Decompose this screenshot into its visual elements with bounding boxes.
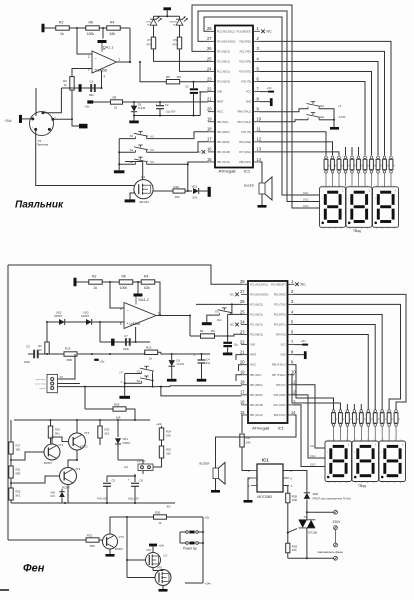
svg-text:PC3 (ADC3): PC3 (ADC3) bbox=[217, 50, 230, 53]
transistor Q1 IRF244 bbox=[134, 175, 153, 204]
svg-text:1k: 1k bbox=[370, 418, 372, 420]
svg-text:D1: D1 bbox=[138, 102, 142, 106]
svg-text:10µ: 10µ bbox=[206, 362, 211, 365]
wire segment pin4 bbox=[294, 314, 383, 409]
resistor R23 bbox=[98, 420, 110, 445]
svg-text:VD2: VD2 bbox=[56, 310, 62, 314]
svg-text:R7: R7 bbox=[147, 38, 151, 42]
svg-text:6R2: 6R2 bbox=[16, 472, 21, 476]
wire bbox=[10, 478, 12, 488]
switch S3 (fen) bbox=[215, 308, 232, 322]
wire segment line pin2 bbox=[260, 41, 392, 155]
svg-text:S4: S4 bbox=[130, 148, 134, 152]
wire segment line pin5 bbox=[260, 72, 372, 156]
ground bbox=[202, 322, 212, 325]
svg-text:5K1: 5K1 bbox=[55, 432, 60, 436]
wire triac gate bbox=[287, 503, 297, 544]
svg-text:VCC: VCC bbox=[246, 92, 251, 94]
svg-text:470: 470 bbox=[146, 43, 151, 47]
svg-text:PC1 (ADC1): PC1 (ADC1) bbox=[250, 324, 263, 327]
label TVod 2 bbox=[358, 484, 366, 488]
wire bbox=[153, 463, 162, 467]
svg-text:TL431: TL431 bbox=[177, 362, 185, 366]
svg-text:термопара: термопара bbox=[35, 379, 46, 381]
svg-text:+T: +T bbox=[119, 370, 123, 374]
svg-text:7: 7 bbox=[257, 86, 260, 91]
svg-text:R8: R8 bbox=[113, 96, 117, 100]
svg-text:-T/OK: -T/OK bbox=[338, 115, 346, 119]
resistor R9 bbox=[172, 37, 181, 49]
svg-text:1k: 1k bbox=[367, 165, 369, 167]
resistor R31 bbox=[86, 534, 99, 548]
ground bbox=[125, 199, 136, 202]
svg-text:R19: R19 bbox=[55, 428, 60, 432]
wire buttons common bbox=[319, 109, 335, 127]
svg-text:1M: 1M bbox=[211, 329, 216, 333]
wire to mains terminal bbox=[307, 511, 334, 513]
resistor R6 (fen) bbox=[119, 275, 133, 291]
svg-text:+T: +T bbox=[338, 104, 342, 108]
label +5v bbox=[94, 359, 105, 364]
svg-text:240: 240 bbox=[246, 441, 251, 445]
capacitor C1 bbox=[89, 80, 95, 97]
svg-text:7: 7 bbox=[291, 339, 294, 344]
wire gate bus bbox=[126, 517, 128, 578]
wire bbox=[124, 387, 126, 396]
svg-text:VT6: VT6 bbox=[146, 548, 151, 552]
svg-text:4: 4 bbox=[32, 127, 34, 129]
svg-text:R15: R15 bbox=[146, 345, 152, 349]
wire bbox=[185, 582, 203, 584]
svg-text:DIG2: DIG2 bbox=[310, 455, 316, 458]
svg-text:Паяльник: Паяльник bbox=[15, 200, 64, 211]
resistor R45 segment (fen) bbox=[366, 410, 372, 441]
svg-text:5: 5 bbox=[291, 319, 294, 324]
svg-text:VD4: VD4 bbox=[123, 437, 129, 441]
svg-text:1: 1 bbox=[375, 443, 377, 447]
svg-text:+: + bbox=[95, 68, 97, 72]
transistor VT4 BC547 bbox=[103, 534, 125, 551]
svg-text:C6: C6 bbox=[140, 478, 144, 482]
wire analog rail bbox=[61, 87, 101, 89]
svg-text:Паяльник: Паяльник bbox=[37, 144, 49, 147]
connector heater supply bbox=[123, 459, 153, 471]
svg-text:ATmega8: ATmega8 bbox=[252, 426, 270, 431]
svg-text:FR207: FR207 bbox=[81, 314, 90, 318]
svg-text:BC547: BC547 bbox=[44, 461, 52, 465]
svg-text:1k: 1k bbox=[60, 32, 64, 36]
wire bbox=[167, 516, 204, 518]
svg-text:8: 8 bbox=[257, 96, 260, 101]
wire bbox=[127, 559, 146, 561]
svg-text:6: 6 bbox=[120, 307, 122, 311]
wire segment line pin3 bbox=[260, 51, 385, 155]
svg-text:1k: 1k bbox=[391, 418, 393, 420]
wire bbox=[154, 15, 180, 18]
wire segment pin10 bbox=[292, 375, 340, 410]
svg-text:IC1: IC1 bbox=[244, 169, 251, 174]
svg-text:S2: S2 bbox=[137, 379, 141, 383]
svg-text:17: 17 bbox=[240, 390, 245, 395]
resistor R25 bbox=[159, 446, 171, 463]
wire digit3 loop pin26 bbox=[192, 5, 320, 208]
terminal heater 2 bbox=[334, 543, 338, 547]
svg-text:R1: R1 bbox=[200, 329, 204, 333]
wire bbox=[199, 190, 208, 192]
svg-text:4: 4 bbox=[291, 484, 293, 488]
resistor R4 (fen) bbox=[141, 275, 155, 291]
svg-text:GND: GND bbox=[246, 102, 251, 104]
svg-text:C7: C7 bbox=[124, 334, 128, 338]
wire segment pin2 bbox=[294, 294, 407, 409]
switch S1 bbox=[307, 102, 342, 109]
ground bbox=[197, 379, 207, 382]
diode VD3 FR207 bbox=[81, 310, 92, 325]
wire segment pin3 bbox=[294, 304, 401, 409]
title Фен bbox=[23, 563, 45, 575]
wire R3 bottom to ground bbox=[72, 90, 79, 126]
wire op-amp V- to analog rail bbox=[101, 70, 103, 89]
resistor R38 segment bbox=[376, 156, 382, 187]
label +24v bottom bbox=[205, 582, 212, 586]
svg-text:VD1: VD1 bbox=[192, 185, 198, 189]
resistor R32 segment bbox=[337, 156, 343, 187]
ground bbox=[244, 500, 253, 503]
resistor R43 segment (fen) bbox=[352, 410, 358, 441]
resistor R15 (fen) bbox=[142, 345, 158, 360]
label -6V bbox=[166, 505, 171, 509]
resistor R3 (fen) bbox=[38, 322, 49, 354]
wire buttons right bus bbox=[152, 374, 154, 388]
switch SA1 power up A bbox=[180, 531, 203, 534]
svg-text:DIG2: DIG2 bbox=[303, 198, 309, 201]
terminal bbox=[208, 187, 211, 197]
svg-text:LM358: LM358 bbox=[130, 322, 140, 326]
svg-text:24: 24 bbox=[207, 66, 212, 71]
resistor R33 segment bbox=[344, 156, 350, 187]
wire bbox=[180, 49, 209, 72]
svg-text:10R: 10R bbox=[292, 498, 297, 502]
svg-text:11: 11 bbox=[257, 127, 262, 132]
wire M2 bbox=[147, 142, 209, 152]
svg-text:2: 2 bbox=[291, 289, 294, 294]
svg-text:5: 5 bbox=[257, 66, 260, 71]
svg-text:VT2: VT2 bbox=[75, 467, 81, 471]
svg-text:62k: 62k bbox=[110, 32, 116, 36]
svg-text:10: 10 bbox=[257, 117, 262, 122]
wire VT5 source bbox=[162, 586, 164, 590]
svg-text:100: 100 bbox=[175, 195, 180, 199]
wire digit1 loop pin28 bbox=[204, 17, 320, 195]
wire bbox=[93, 101, 110, 103]
resistor R7 bbox=[146, 37, 155, 49]
svg-text:PC5 (ADC5/SCL): PC5 (ADC5/SCL) bbox=[250, 283, 268, 286]
svg-text:5K1: 5K1 bbox=[105, 432, 110, 436]
LED HL1 red bbox=[146, 16, 162, 26]
svg-text:16: 16 bbox=[240, 400, 245, 405]
svg-text:PB7 (XTAL2): PB7 (XTAL2) bbox=[237, 121, 251, 124]
wire VT5 gate link bbox=[148, 577, 156, 579]
svg-text:R27: R27 bbox=[246, 436, 252, 440]
wire heater element bbox=[335, 530, 337, 544]
svg-text:1k: 1k bbox=[347, 165, 349, 167]
svg-text:21: 21 bbox=[240, 349, 245, 354]
svg-text:5: 5 bbox=[120, 322, 122, 326]
resistor R41 segment (fen) bbox=[339, 410, 345, 441]
wire S3 left to ground bbox=[207, 315, 220, 322]
terminal mains B bbox=[334, 556, 338, 560]
label 220V bbox=[333, 520, 342, 524]
wire segment pin6 bbox=[294, 335, 369, 410]
svg-text:S3: S3 bbox=[130, 134, 134, 138]
wire pin20 stub bbox=[239, 365, 242, 371]
svg-text:68R: 68R bbox=[67, 358, 72, 362]
wire VT3 collector bbox=[76, 420, 78, 433]
display HG3 digit 3 bbox=[373, 185, 399, 229]
svg-text:27: 27 bbox=[240, 289, 245, 294]
svg-text:PC4 (ADC4/SDA): PC4 (ADC4/SDA) bbox=[250, 293, 269, 296]
svg-text:7: 7 bbox=[158, 311, 160, 315]
wire VT1 emitter bbox=[0, 0, 1, 1]
op-amp DA1.1 bbox=[88, 45, 120, 78]
wire bbox=[99, 322, 101, 342]
svg-text:1k: 1k bbox=[384, 418, 386, 420]
resistor R30 segment bbox=[324, 156, 330, 187]
power bar +24v fan bbox=[149, 544, 165, 553]
power bar +5 over op-amp bbox=[98, 40, 107, 52]
svg-text:PC2 (ADC2): PC2 (ADC2) bbox=[250, 313, 263, 316]
svg-text:RED: RED bbox=[146, 21, 151, 23]
wire +5v pin7 (fen) bbox=[295, 344, 306, 346]
svg-text:VD3: VD3 bbox=[83, 310, 89, 314]
svg-text:R24: R24 bbox=[166, 430, 171, 434]
svg-text:ATmega8: ATmega8 bbox=[218, 169, 236, 174]
svg-text:+: + bbox=[127, 322, 129, 326]
svg-text:PC6 (RESET): PC6 (RESET) bbox=[237, 31, 252, 33]
svg-text:R23: R23 bbox=[105, 428, 110, 432]
svg-text:PD6 (AIN0): PD6 (AIN0) bbox=[239, 141, 251, 144]
label thermocouple bbox=[35, 379, 46, 381]
svg-text:15: 15 bbox=[240, 410, 245, 415]
svg-text:GREEN: GREEN bbox=[169, 21, 177, 23]
wire VT2 emitter bbox=[67, 485, 69, 504]
connector P1 soldering iron DIN-5 bbox=[30, 111, 57, 147]
resistor R39 segment bbox=[383, 156, 389, 187]
svg-text:21: 21 bbox=[207, 96, 212, 101]
wire bbox=[77, 353, 145, 355]
resistor R46 segment (fen) bbox=[373, 410, 379, 441]
capacitor C6 filter bbox=[185, 82, 202, 116]
ground bbox=[114, 170, 125, 173]
IC U2 ATmega8 (Фен) bbox=[240, 279, 296, 430]
svg-text:1k: 1k bbox=[354, 165, 356, 167]
svg-text:BT138: BT138 bbox=[309, 531, 318, 535]
wire fan source link bbox=[0, 0, 1, 1]
svg-text:C6: C6 bbox=[185, 84, 189, 88]
switch S1 (fen) bbox=[119, 366, 154, 374]
wire bbox=[35, 88, 37, 116]
svg-text:330: 330 bbox=[292, 548, 297, 552]
wire +5 rail to IC pin21 bbox=[159, 101, 208, 103]
svg-text:PC5 (ADC5/SCL): PC5 (ADC5/SCL) bbox=[217, 30, 235, 33]
svg-text:R15: R15 bbox=[174, 185, 180, 189]
wire segment line pin13 bbox=[260, 152, 340, 156]
svg-text:Mini: Mini bbox=[217, 318, 222, 322]
resistor R24 bbox=[156, 422, 171, 446]
display HG6 digit 3 bbox=[379, 440, 406, 484]
wire VT1 base bbox=[11, 452, 44, 460]
svg-text:1: 1 bbox=[342, 188, 344, 192]
svg-text:8: 8 bbox=[291, 349, 294, 354]
svg-text:1k: 1k bbox=[39, 348, 43, 352]
svg-text:2: 2 bbox=[257, 36, 260, 41]
wire opto pin6 trunk bbox=[283, 471, 307, 493]
svg-text:C2: C2 bbox=[165, 103, 169, 107]
zener VD1 5V1 bbox=[192, 185, 199, 200]
svg-text:1k: 1k bbox=[64, 83, 68, 87]
svg-text:+5v: +5v bbox=[100, 359, 105, 363]
svg-text:1k: 1k bbox=[349, 418, 351, 420]
wire VT3 emitter bbox=[68, 450, 78, 468]
svg-text:470n 63V: 470n 63V bbox=[97, 497, 108, 500]
switch S2 (fen) bbox=[120, 376, 154, 384]
svg-text:PD1 (TXD): PD1 (TXD) bbox=[240, 51, 252, 53]
wire bbox=[10, 454, 12, 466]
wire Q1 gate bbox=[153, 190, 174, 192]
svg-text:1k: 1k bbox=[398, 418, 400, 420]
ground bbox=[330, 127, 339, 130]
wire bbox=[43, 88, 61, 113]
svg-text:PD6 (AIN0): PD6 (AIN0) bbox=[274, 394, 286, 397]
svg-text:AREF: AREF bbox=[217, 101, 224, 104]
svg-text:S2: S2 bbox=[321, 115, 325, 119]
wire bbox=[10, 500, 12, 503]
diode VD5 FR207 bbox=[304, 492, 319, 499]
svg-text:PB3 (MOSI): PB3 (MOSI) bbox=[250, 395, 263, 397]
wire stub segments bbox=[346, 147, 359, 156]
svg-text:1M: 1M bbox=[177, 75, 182, 79]
resistor R35 segment bbox=[357, 156, 363, 187]
ground bbox=[159, 589, 168, 592]
svg-text:−: − bbox=[127, 308, 129, 312]
svg-text:+: + bbox=[128, 478, 130, 482]
svg-text:20: 20 bbox=[240, 360, 245, 365]
label VD5 note bbox=[313, 498, 351, 501]
capacitor C3 bbox=[24, 345, 38, 364]
power +5v rail terminal bbox=[85, 100, 94, 108]
wire bbox=[100, 27, 108, 29]
svg-text:6: 6 bbox=[291, 329, 294, 334]
svg-text:VT5: VT5 bbox=[157, 565, 162, 569]
svg-text:R17: R17 bbox=[16, 444, 21, 448]
resistor R30 bbox=[154, 511, 167, 525]
resistor R1 1M bbox=[200, 329, 215, 338]
wire opto feed pin15 bbox=[241, 415, 244, 433]
svg-text:GND: GND bbox=[217, 92, 222, 94]
svg-text:100n: 100n bbox=[24, 360, 31, 364]
wire bbox=[215, 479, 217, 491]
svg-text:3: 3 bbox=[257, 46, 260, 51]
svg-text:C1: C1 bbox=[90, 80, 94, 84]
svg-text:25: 25 bbox=[240, 309, 245, 314]
svg-text:AREF: AREF bbox=[250, 354, 257, 357]
ground bbox=[119, 396, 130, 399]
wire bbox=[127, 577, 148, 579]
svg-text:10K: 10K bbox=[116, 416, 121, 420]
svg-text:R9: R9 bbox=[173, 38, 177, 42]
svg-text:-6V: -6V bbox=[166, 505, 171, 509]
svg-text:D1: D1 bbox=[177, 358, 181, 362]
wire buzzer (fen) pin14 bbox=[216, 415, 297, 468]
capacitor bar pin8 bbox=[260, 98, 273, 106]
svg-text:PB6 (XTAL1): PB6 (XTAL1) bbox=[237, 111, 251, 114]
svg-text:PD2 (INT0): PD2 (INT0) bbox=[239, 61, 251, 63]
wire bbox=[123, 101, 164, 103]
svg-text:PD5 (T1): PD5 (T1) bbox=[242, 132, 252, 134]
terminal +5v (fen) bbox=[301, 339, 308, 346]
capacitor C8 (pin22 net) bbox=[223, 336, 238, 353]
node DIG3 fen bbox=[310, 463, 316, 466]
svg-text:NC: NC bbox=[301, 283, 307, 287]
svg-text:+24v: +24v bbox=[156, 422, 163, 426]
svg-text:VT1: VT1 bbox=[58, 443, 64, 447]
svg-text:68n: 68n bbox=[89, 93, 94, 97]
svg-text:PD0 (RXD): PD0 (RXD) bbox=[239, 41, 251, 43]
svg-text:FR207: FR207 bbox=[54, 314, 63, 318]
ground bbox=[223, 353, 233, 356]
svg-text:4: 4 bbox=[257, 56, 260, 61]
svg-text:DIG1: DIG1 bbox=[303, 192, 309, 195]
resistor R26 bbox=[85, 387, 126, 420]
wire pin17 branch bbox=[160, 386, 242, 396]
svg-text:1: 1 bbox=[354, 452, 356, 454]
svg-text:19: 19 bbox=[207, 117, 212, 122]
wire R1 to pin23 bbox=[215, 334, 242, 337]
svg-text:VT4: VT4 bbox=[119, 535, 125, 539]
wire bbox=[185, 190, 192, 192]
wire bbox=[58, 354, 76, 379]
transistor VT1 bbox=[44, 443, 64, 465]
svg-text:IRF244: IRF244 bbox=[140, 200, 150, 204]
resistor R37 segment bbox=[370, 156, 376, 187]
svg-text:R25: R25 bbox=[166, 448, 171, 452]
svg-text:T1: T1 bbox=[304, 515, 308, 519]
svg-text:1k: 1k bbox=[373, 165, 375, 167]
resistor R40 segment bbox=[389, 156, 395, 187]
svg-text:4: 4 bbox=[291, 309, 294, 314]
resistor R28 bbox=[286, 493, 298, 503]
capacitor bulk plate 2 bbox=[111, 339, 114, 346]
transistor VT3 KT972 bbox=[69, 431, 90, 450]
IC U1 ATmega8 (Паяльник) bbox=[207, 26, 262, 174]
svg-text:1: 1 bbox=[257, 26, 260, 31]
svg-text:1k: 1k bbox=[356, 418, 358, 420]
wire VT2 base bbox=[11, 476, 60, 483]
svg-text:M3: M3 bbox=[150, 160, 154, 164]
svg-text:100µ 50V: 100µ 50V bbox=[128, 497, 139, 500]
svg-text:10µ: 10µ bbox=[234, 343, 239, 346]
svg-text:+: + bbox=[193, 353, 195, 357]
node DIG3 bbox=[303, 205, 309, 208]
svg-text:26: 26 bbox=[207, 46, 212, 51]
wire op-amp output bbox=[117, 61, 131, 63]
ground bbox=[167, 379, 177, 382]
transistor VT2 bbox=[60, 467, 81, 490]
op-amp DA1.2 bbox=[120, 298, 160, 328]
wire branch to pin25 bbox=[228, 314, 242, 336]
svg-text:470: 470 bbox=[172, 43, 177, 47]
wire bbox=[72, 69, 92, 77]
